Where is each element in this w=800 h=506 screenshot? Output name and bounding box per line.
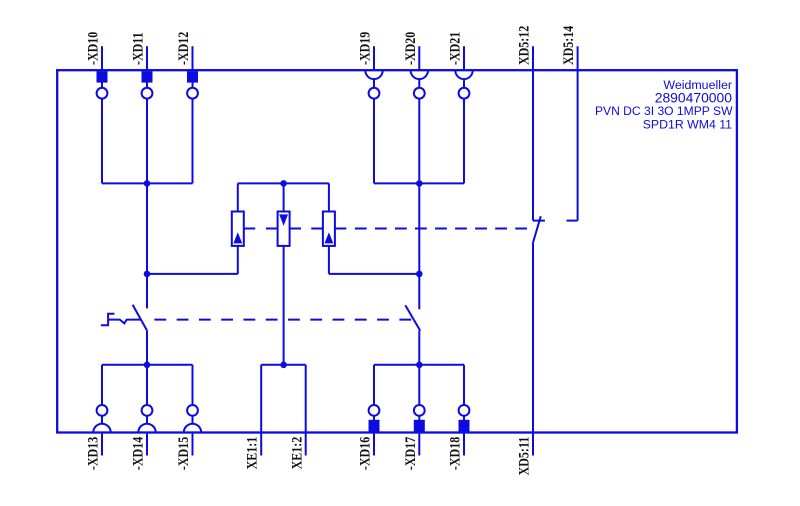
terminal -XD17 [402,365,425,470]
svg-text:-XD16: -XD16 [356,437,373,471]
svg-text:-XD11: -XD11 [129,32,146,65]
terminal XD5:14 [560,25,578,220]
disconnect switch left (with trip actuator) [101,305,147,365]
svg-text:XD5:12: XD5:12 [515,25,532,65]
wire: top bus XD19-XD21 [374,182,464,184]
terminal -XD20 [402,31,428,183]
node: junction XD20 / right arrester [416,271,423,278]
node: junction middle arrester / XE1 [280,362,287,369]
part info text block [595,78,733,131]
terminal -XD18 [446,365,469,470]
node: junction XD11 / top bus [144,180,151,187]
svg-text:-XD18: -XD18 [446,437,463,471]
node: junction XD14 / bottom bus [144,362,151,369]
wire: top bus XD10-XD12 [102,182,193,184]
svg-text:-XD21: -XD21 [446,31,463,65]
svg-text:XD5:14: XD5:14 [560,25,577,65]
wire: bottom bus XD13-XD15 [102,364,193,366]
disconnect switch middle [405,305,420,365]
svg-text:XD5:11: XD5:11 [515,437,532,476]
svg-text:-XD10: -XD10 [84,31,101,65]
wire: XD11 column down [146,183,148,308]
terminal -XD21 [446,31,472,183]
terminal -XD14 [129,365,155,470]
svg-text:-XD15: -XD15 [175,437,192,471]
terminal -XD11 [129,32,152,183]
terminal -XD10 [84,31,107,183]
svg-text:PVN DC 3I 3O 1MPP SW: PVN DC 3I 3O 1MPP SW [595,104,733,118]
svg-text:-XD13: -XD13 [84,437,101,471]
terminal -XD12 [175,31,198,183]
surge arrester middle (gas discharge tube) [266,183,301,364]
connector XE1 (earth) [261,365,306,456]
terminal -XD15 [175,365,201,470]
svg-text:-XD20: -XD20 [402,31,419,65]
surge arrester left (varistor) [232,183,255,274]
node: junction XD20 / top bus [416,180,423,187]
svg-text:SPD1R WM4 11: SPD1R WM4 11 [643,117,732,131]
terminal XD5:12 [515,25,545,220]
wire: surge arrester common bus [238,182,329,184]
node: junction XD11 / left arrester [144,271,151,278]
node: junction XD17 / bottom bus [416,362,423,369]
dashed mechanical linkage (arresters to changeover contact) [355,228,527,230]
svg-text:-XD17: -XD17 [402,437,419,471]
device outline [57,70,737,432]
wire: right arrester to XD20 column [329,273,419,275]
svg-text:-XD14: -XD14 [129,437,146,471]
wire: XD20 column down [418,183,420,309]
surge arrester right (varistor) [311,183,346,274]
terminal -XD16 [356,365,379,470]
node: junction middle arrester / common bus [280,180,287,187]
svg-text:-XD12: -XD12 [175,31,192,65]
svg-text:XE1:1: XE1:1 [243,437,260,470]
svg-text:XE1:2: XE1:2 [288,437,305,470]
terminal -XD13 [84,365,110,470]
svg-text:-XD19: -XD19 [356,31,373,65]
wire: bottom bus XD16-XD18 [374,364,464,366]
dashed mechanical linkage (left switch to middle switch) [154,319,411,321]
changeover contact (remote signalling) [533,216,541,455]
wire: left arrester to XD11 column [147,273,238,275]
terminal -XD19 [356,31,382,183]
